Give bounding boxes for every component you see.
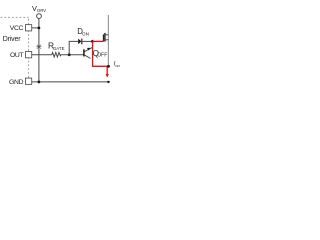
node junction VCC / V_DRV	[38, 27, 41, 30]
transistor Q_OFF collector wire	[84, 55, 90, 59]
asterisk marker on V_DRV rail	[36, 45, 41, 49]
MOSFET drain/source rail (gray)	[107, 15, 109, 66]
pin VCC (square)	[26, 25, 32, 31]
MOSFET channel bar	[104, 33, 106, 42]
svg-text:OUT: OUT	[10, 52, 24, 59]
wire V_DRV vertical main rail	[38, 19, 40, 82]
svg-text:DRV: DRV	[37, 8, 46, 13]
svg-text:ON: ON	[82, 31, 89, 36]
resistor R_GATE	[52, 52, 61, 57]
MOSFET gate bar	[102, 34, 104, 41]
node A junction	[68, 53, 71, 56]
wire D_ON cathode to gate node	[82, 40, 93, 42]
red arrowhead turn-off current direction	[106, 74, 109, 78]
red wire turn-off path vertical through Q_OFF	[93, 41, 109, 66]
pin GND (square)	[26, 78, 32, 84]
wire bottom ground rail	[32, 81, 110, 83]
wire VCC pin to V_DRV rail	[32, 27, 39, 29]
svg-text:VCC: VCC	[10, 25, 24, 32]
MOSFET drain stub	[105, 34, 109, 36]
red wire gate node to MOSFET gate	[92, 40, 103, 42]
wire resistor to Q_OFF base	[61, 54, 85, 56]
supply terminal V_DRV circle	[37, 14, 42, 19]
MOSFET source stub	[105, 39, 109, 41]
node junction rail to MOSFET source return	[107, 81, 109, 83]
red wire source-to-ground segment	[106, 66, 108, 74]
transistor Q_OFF base bar	[83, 49, 85, 56]
svg-text:GATE: GATE	[53, 46, 65, 51]
svg-text:V: V	[32, 4, 37, 13]
svg-text:OFF: OFF	[97, 53, 107, 59]
transistor Q_OFF emitter arrow	[87, 48, 90, 51]
driver IC dashed boundary top edge	[1, 16, 29, 18]
pin OUT (square)	[26, 52, 32, 58]
svg-text:Driver: Driver	[3, 36, 22, 43]
wire node A up to D_ON branch	[69, 41, 78, 54]
diode D_ON	[78, 39, 81, 45]
node junction GND rail / V_DRV rail	[38, 81, 41, 84]
node source junction	[107, 65, 110, 68]
driver IC dashed boundary right edge	[28, 19, 30, 78]
svg-text:OFF: OFF	[115, 64, 120, 68]
node B junction (gate node)	[91, 40, 94, 43]
svg-text:GND: GND	[9, 79, 24, 86]
transistor Q_OFF emitter wire (under red path)	[84, 41, 92, 51]
wire OUT pin to resistor	[32, 54, 52, 56]
